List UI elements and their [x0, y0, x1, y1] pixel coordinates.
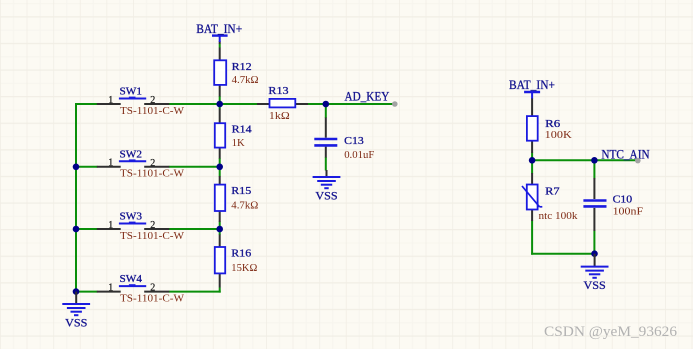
- ground VSS right net label VSS: [584, 278, 606, 292]
- R16 body: [215, 247, 225, 273]
- wire bottom right horizontal: [531, 253, 594, 255]
- svg-text:AD_KEY: AD_KEY: [345, 89, 390, 104]
- SW1 pin number 2: [150, 95, 155, 106]
- SW4 pin number 2: [150, 283, 155, 294]
- R6 value 100K: [545, 129, 572, 141]
- R12 designator: [232, 61, 252, 73]
- switch SW2: [108, 148, 184, 179]
- svg-text:R7: R7: [545, 185, 560, 197]
- pin leads SW4: [97, 291, 170, 293]
- pin leads C10: [593, 178, 595, 231]
- R6 body: [527, 116, 538, 141]
- SW1 value TS-1101-C-W: [120, 105, 185, 117]
- svg-text:R14: R14: [232, 123, 253, 135]
- resistor R14: [215, 123, 252, 149]
- wire NTC_AIN row: [532, 159, 638, 161]
- C13 plates: [314, 139, 337, 145]
- SW3 actuator: [119, 222, 146, 224]
- junction NTC_AIN left: [529, 157, 536, 164]
- R16 designator: [231, 248, 252, 260]
- svg-text:R16: R16: [231, 248, 252, 260]
- junction AD_KEY / C13: [323, 101, 330, 108]
- svg-text:R12: R12: [232, 61, 252, 73]
- SW3 designator: [120, 211, 143, 223]
- R12 body: [214, 60, 226, 85]
- power port BAT_IN+ right: [509, 77, 555, 99]
- R14 value 1K: [232, 137, 245, 149]
- svg-text:1kΩ: 1kΩ: [269, 110, 290, 122]
- svg-text:CSDN @yeM_93626: CSDN @yeM_93626: [544, 324, 678, 340]
- junction NTC_AIN right: [591, 157, 598, 164]
- R14 designator: [232, 123, 253, 135]
- svg-text:VSS: VSS: [65, 316, 87, 330]
- ground VSS C13: [313, 170, 341, 203]
- svg-text:SW1: SW1: [120, 86, 143, 98]
- R15 body: [215, 185, 225, 211]
- SW1 designator: [120, 86, 143, 98]
- svg-text:SW4: SW4: [120, 273, 143, 285]
- wire R13 left: [220, 103, 258, 105]
- wire R7 top: [531, 160, 533, 173]
- svg-text:TS-1101-C-W: TS-1101-C-W: [120, 230, 185, 242]
- resistor R12: [214, 60, 258, 86]
- SW3 pin number 2: [150, 220, 155, 231]
- svg-text:VSS: VSS: [584, 278, 606, 292]
- ground VSS C13 symbol: [313, 170, 341, 188]
- NTC_AIN dangling end: [635, 158, 641, 164]
- pin leads C13: [325, 118, 327, 158]
- svg-text:NTC_AIN: NTC_AIN: [601, 146, 650, 161]
- junction left bus SW3: [73, 226, 80, 233]
- BAT_IN+ right net label: [509, 77, 555, 92]
- junction R14-R15: [216, 164, 223, 171]
- wire left bus vertical: [75, 103, 77, 292]
- wire C10 top: [593, 160, 595, 178]
- C10 designator: [613, 193, 633, 205]
- SW2 pin number 2: [150, 158, 155, 169]
- SW2 pin number 1: [108, 158, 113, 169]
- svg-text:1: 1: [108, 282, 113, 293]
- svg-text:TS-1101-C-W: TS-1101-C-W: [120, 105, 185, 117]
- SW1 actuator: [119, 97, 146, 99]
- svg-text:C13: C13: [344, 135, 364, 147]
- junction chain top: [216, 101, 223, 108]
- SW4 designator: [120, 273, 143, 285]
- SW4 pin number 1: [108, 282, 113, 293]
- R13 designator: [268, 85, 289, 97]
- AD_KEY net label: [345, 89, 390, 104]
- resistor R13: [268, 85, 295, 122]
- R15 value 4.7k&#937;: [231, 200, 258, 212]
- wire SW1 row right segment: [169, 103, 220, 105]
- C10 plates: [583, 201, 606, 207]
- SW4 actuator: [119, 284, 146, 286]
- wire R7 bottom: [531, 221, 533, 255]
- pin leads R6: [531, 98, 533, 153]
- watermark: [544, 324, 678, 340]
- svg-text:1K: 1K: [232, 137, 245, 149]
- node AD_KEY: [345, 89, 398, 107]
- C10 value 100nF: [613, 206, 644, 218]
- ground VSS C13 net label VSS: [315, 189, 337, 203]
- NTC_AIN net label: [601, 146, 650, 161]
- power port BAT_IN+ left: [196, 21, 242, 42]
- svg-text:SW3: SW3: [120, 211, 143, 223]
- SW2 designator: [120, 148, 143, 160]
- R13 body: [270, 99, 296, 108]
- resistor R16: [215, 247, 257, 274]
- svg-text:R13: R13: [268, 85, 289, 97]
- svg-text:100K: 100K: [545, 129, 572, 141]
- pin leads R13: [257, 103, 308, 105]
- ground VSS left net label VSS: [65, 316, 87, 330]
- svg-text:TS-1101-C-W: TS-1101-C-W: [120, 168, 185, 180]
- wire chain across junction R14-R15: [219, 158, 221, 177]
- junction left bus SW2: [73, 164, 80, 171]
- svg-text:4.7kΩ: 4.7kΩ: [232, 74, 259, 86]
- wire chain power stub: [219, 44, 221, 48]
- R16 value 15K&#937;: [231, 262, 257, 274]
- wire C10 bottom: [593, 231, 595, 254]
- ground VSS right: [581, 254, 609, 292]
- svg-text:BAT_IN+: BAT_IN+: [509, 77, 555, 92]
- wire SW3 row left stub: [75, 228, 98, 230]
- AD_KEY dangling end: [392, 101, 398, 107]
- capacitor C10: [583, 193, 643, 217]
- svg-text:1: 1: [108, 158, 113, 169]
- svg-text:4.7kΩ: 4.7kΩ: [231, 200, 258, 212]
- svg-text:ntc 100k: ntc 100k: [539, 210, 578, 222]
- R6 designator: [545, 118, 561, 130]
- resistor R6: [527, 116, 572, 141]
- svg-text:TS-1101-C-W: TS-1101-C-W: [120, 293, 185, 305]
- svg-text:SW2: SW2: [120, 148, 143, 160]
- switch SW4: [108, 273, 184, 304]
- wire SW3 row right segment: [169, 228, 220, 230]
- pin leads SW3: [97, 228, 170, 230]
- R13 value 1kOhm: [269, 110, 290, 122]
- thermistor R7: [522, 185, 578, 223]
- svg-text:1: 1: [108, 220, 113, 231]
- SW2 actuator: [119, 159, 146, 161]
- junction left bus ground: [73, 288, 80, 295]
- svg-text:100nF: 100nF: [613, 206, 644, 218]
- junction R15-R16: [216, 226, 223, 233]
- R7 designator: [545, 185, 560, 197]
- capacitor C13: [314, 135, 374, 161]
- junction bottom right: [591, 250, 598, 257]
- pin leads resistor chain: [219, 41, 221, 287]
- ground VSS right symbol: [581, 254, 609, 278]
- node NTC_AIN: [601, 146, 650, 163]
- R7 value ntc 100k: [539, 210, 578, 222]
- wire chain bottom corner: [219, 288, 221, 293]
- BAT_IN+ left net label: [196, 21, 242, 36]
- wire C13 bottom: [325, 157, 327, 171]
- wire AD_KEY: [308, 103, 395, 105]
- ground VSS left symbol: [62, 292, 90, 316]
- C13 value 0.01uF: [344, 149, 374, 161]
- wire SW4 row left stub: [75, 291, 98, 293]
- SW3 value TS-1101-C-W: [120, 230, 185, 242]
- svg-text:0.01uF: 0.01uF: [344, 149, 374, 161]
- R12 value 4.7k&#937;: [232, 74, 259, 86]
- C13 designator: [344, 135, 364, 147]
- svg-text:1: 1: [108, 95, 113, 106]
- svg-text:BAT_IN+: BAT_IN+: [196, 21, 242, 36]
- SW4 value TS-1101-C-W: [120, 293, 185, 305]
- switch SW3: [108, 211, 184, 242]
- ground VSS left: [62, 292, 90, 330]
- svg-text:15KΩ: 15KΩ: [231, 262, 257, 274]
- BAT_IN+ right bar symbol: [524, 92, 540, 99]
- SW1 pin number 1: [108, 95, 113, 106]
- switch SW1: [108, 86, 184, 117]
- SW3 pin number 1: [108, 220, 113, 231]
- R7 body: [522, 185, 542, 210]
- wire chain above top junction: [219, 96, 221, 109]
- wire R6 bottom: [531, 153, 533, 161]
- wire SW2 row left stub: [75, 166, 98, 168]
- R15 designator: [231, 185, 252, 197]
- wire SW4 row right segment: [169, 291, 221, 293]
- pin leads R7: [531, 173, 533, 221]
- wire C13 top: [325, 104, 327, 118]
- wire SW1 row left stub: [75, 103, 98, 105]
- svg-text:C10: C10: [613, 193, 633, 205]
- R14 body: [215, 123, 225, 147]
- pin leads SW1: [97, 103, 170, 105]
- resistor R15: [215, 185, 258, 212]
- svg-text:VSS: VSS: [315, 189, 337, 203]
- wire chain across junction R15-R16: [219, 222, 221, 236]
- pin leads SW2: [97, 166, 170, 168]
- wire SW2 row right segment: [169, 166, 220, 168]
- SW2 value TS-1101-C-W: [120, 168, 185, 180]
- svg-text:R15: R15: [231, 185, 252, 197]
- BAT_IN+ left bar symbol: [212, 36, 228, 42]
